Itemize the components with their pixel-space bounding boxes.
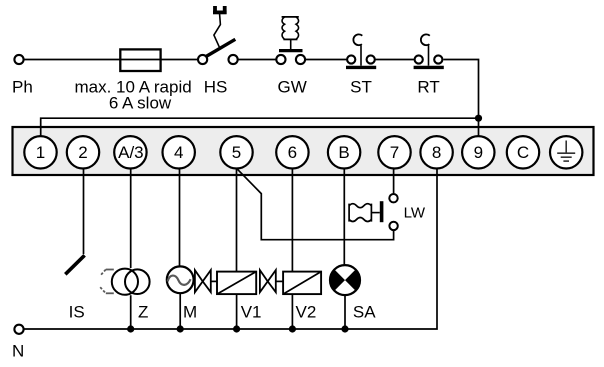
wire GW to ST (305, 59, 347, 61)
terminal 4 (163, 136, 195, 168)
svg-text:LW: LW (404, 205, 426, 222)
wire terminal 5 to V1 (236, 169, 238, 272)
terminal Ph (14, 55, 23, 64)
svg-text:2: 2 (78, 143, 87, 162)
terminal A/3 (114, 136, 146, 168)
valve V2 (260, 270, 268, 292)
wire terminal 8 to bus (24, 169, 437, 330)
svg-text:C: C (517, 143, 529, 162)
svg-text:5: 5 (232, 143, 241, 162)
junction dot V1 (233, 325, 240, 332)
wire terminal 2 to IS (83, 169, 85, 255)
svg-text:1: 1 (36, 143, 45, 162)
wire ST to RT (375, 59, 415, 61)
svg-text:V2: V2 (296, 302, 317, 321)
switch HS (198, 55, 207, 64)
wire RT to terminal 9 (444, 60, 479, 136)
svg-text:8: 8 (432, 143, 441, 162)
terminal 7 (378, 136, 410, 168)
svg-text:B: B (338, 143, 349, 162)
terminal 6 (276, 136, 308, 168)
svg-text:SA: SA (353, 303, 376, 322)
transformer Z (100, 270, 114, 294)
svg-text:A/3: A/3 (118, 143, 144, 162)
svg-text:Z: Z (138, 302, 148, 321)
wire Ph to fuse (24, 59, 121, 61)
terminal 8 (420, 136, 452, 168)
earth ground symbol (557, 141, 575, 162)
wire terminal 4 to M (179, 169, 181, 266)
svg-text:GW: GW (278, 77, 307, 96)
svg-text:Ph: Ph (12, 77, 33, 96)
svg-text:RT: RT (417, 77, 439, 96)
junction dot M (177, 325, 184, 332)
svg-text:HS: HS (204, 77, 228, 96)
water level switch LW (389, 194, 397, 202)
junction dot Z (127, 325, 134, 332)
motor M (167, 266, 194, 293)
svg-text:IS: IS (69, 302, 85, 321)
wire terminal 7 to LW (393, 169, 395, 194)
wire from terminal 1 to top bus (41, 118, 479, 135)
wire SA to bus (344, 295, 346, 329)
lamp SA (330, 265, 360, 295)
switch IS blade (65, 255, 84, 274)
junction dot SA (341, 325, 348, 332)
terminal strip (13, 127, 594, 175)
svg-text:N: N (12, 342, 24, 361)
svg-text:6 A slow: 6 A slow (109, 94, 172, 113)
terminal 2 (67, 136, 99, 168)
wire terminal A/3 to Z (130, 169, 132, 269)
terminal N (14, 325, 23, 334)
wire terminal B to SA (343, 169, 345, 265)
wire fuse to HS (161, 59, 198, 61)
wire Z to bus (130, 295, 132, 329)
wire HS to GW (238, 59, 276, 61)
wire V2 to bus (291, 294, 293, 329)
junction dot V2 (289, 325, 296, 332)
terminal 9 (462, 136, 494, 168)
terminal earth (550, 136, 582, 168)
terminal C (507, 136, 539, 168)
valve V1 (195, 270, 203, 292)
wire M to bus (179, 294, 181, 329)
svg-text:9: 9 (474, 143, 483, 162)
coil V2 (283, 272, 321, 295)
terminal 1 (24, 136, 56, 168)
junction dot above terminal 9 (475, 115, 482, 122)
wire V1 to bus (236, 294, 238, 329)
svg-text:6: 6 (288, 143, 297, 162)
fuse max. 10 A rapid / 6 A slow (120, 59, 160, 61)
svg-text:7: 7 (390, 143, 399, 162)
wire terminal 5 branch to LW (237, 168, 394, 239)
pressure switch GW (276, 55, 285, 64)
svg-text:V1: V1 (241, 302, 262, 321)
wire terminal 6 to V2 (291, 169, 293, 272)
terminal B (328, 136, 360, 168)
coil V1 (217, 272, 256, 295)
svg-text:4: 4 (174, 143, 183, 162)
thermostat RT (415, 55, 423, 63)
svg-text:M: M (183, 302, 197, 321)
svg-text:ST: ST (350, 77, 372, 96)
thermostat ST (347, 55, 355, 63)
terminal 5 (220, 136, 252, 168)
